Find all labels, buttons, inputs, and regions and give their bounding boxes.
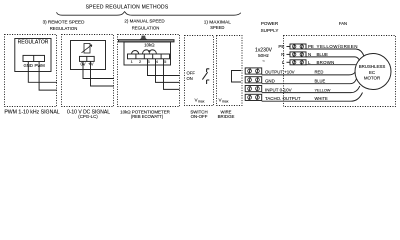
wire from terminal 4 xyxy=(156,59,180,83)
regulator terminal cells xyxy=(23,55,45,61)
label PE N L xyxy=(278,44,285,65)
pot body rect xyxy=(124,42,171,65)
svg-text:BRUSHLESS: BRUSHLESS xyxy=(359,64,386,69)
header: 3) REMOTE SPEED REGULATION xyxy=(43,19,86,31)
switch S1 xyxy=(202,69,209,84)
svg-text:MOTOR: MOTOR xyxy=(364,76,380,81)
wire GND out of regulator xyxy=(28,62,57,83)
caption WIRE BRIDGE xyxy=(218,109,235,119)
svg-text:BLUE: BLUE xyxy=(317,52,329,57)
wire +10V red xyxy=(262,72,356,75)
FAN dashed enclosure xyxy=(284,36,396,107)
dashed box D (switch) xyxy=(185,36,214,106)
knob on panel xyxy=(139,36,147,40)
wire 0V out xyxy=(83,61,114,78)
header: 2) MANUAL SPEED REGULATION xyxy=(124,19,165,31)
svg-text:PE: PE xyxy=(308,44,314,49)
dashed box B (0-10V DC) xyxy=(62,35,114,107)
label Vmax (switch) xyxy=(195,98,205,104)
wire from terminal 5 xyxy=(164,59,180,90)
svg-text:BLUE: BLUE xyxy=(315,78,326,83)
svg-text:RED: RED xyxy=(315,70,324,75)
svg-text:WHITE: WHITE xyxy=(315,96,328,101)
svg-text:(REB ECOWATT): (REB ECOWATT) xyxy=(131,114,164,119)
svg-text:GND: GND xyxy=(265,78,275,83)
terminal row 1-5 xyxy=(128,54,170,59)
svg-text:10kΩ: 10kΩ xyxy=(144,42,155,47)
caption SWITCH ON-OFF xyxy=(190,109,207,119)
motor M1 circle xyxy=(355,54,391,90)
wire bridge jumper xyxy=(232,71,242,83)
svg-text:ON-OFF: ON-OFF xyxy=(191,114,208,119)
brace under title xyxy=(57,12,241,16)
terminal numbers 1 2 3 4 5 xyxy=(131,59,168,64)
svg-text:(CPG-LC): (CPG-LC) xyxy=(78,114,98,119)
svg-text:SUPPLY: SUPPLY xyxy=(261,28,279,33)
svg-text:2) MANUAL SPEED: 2) MANUAL SPEED xyxy=(124,19,165,24)
terminal block PE xyxy=(287,44,307,49)
dashed box C (manual potentiometer) xyxy=(118,35,180,107)
terminal block TACHO xyxy=(245,94,262,100)
svg-text:BROWN: BROWN xyxy=(317,60,335,65)
panel bar xyxy=(119,40,175,42)
svg-text:OUTPUT +10V: OUTPUT +10V xyxy=(265,70,295,75)
svg-text:~: ~ xyxy=(262,59,265,64)
label POWER SUPPLY xyxy=(261,21,279,33)
svg-text:PWM: PWM xyxy=(34,63,45,68)
potentiometer symbol RP1 xyxy=(84,44,90,54)
wire TACHO white xyxy=(262,93,363,102)
svg-text:REGULATOR: REGULATOR xyxy=(18,40,49,46)
wiper arrow of RP1 xyxy=(82,45,92,53)
label GND PWM xyxy=(24,63,46,68)
terminal block +10V xyxy=(245,68,262,74)
wire PE yellow/green xyxy=(306,49,364,56)
wire +V out xyxy=(91,61,115,86)
svg-text:max: max xyxy=(198,99,205,103)
caption 0-10V signal xyxy=(67,109,110,119)
svg-text:TACHO. OUTPUT: TACHO. OUTPUT xyxy=(265,96,301,101)
svg-text:EC: EC xyxy=(369,70,375,75)
wire N blue xyxy=(306,57,360,61)
label 0V +V xyxy=(80,62,93,67)
potentiometer unit box xyxy=(71,41,106,70)
svg-text:ON: ON xyxy=(187,76,193,81)
svg-text:REGULATION: REGULATION xyxy=(132,26,160,31)
svg-text:+V: +V xyxy=(88,62,93,67)
wire from terminal 3 xyxy=(148,59,180,76)
svg-text:YELLOW: YELLOW xyxy=(315,87,331,92)
wire GND blue xyxy=(262,79,357,84)
wire PWM out of regulator xyxy=(39,62,57,91)
pot element arcs terminals 3-5 xyxy=(143,50,157,54)
dashed box E (wire bridge) xyxy=(217,36,243,106)
svg-text:FAN: FAN xyxy=(339,21,347,26)
terminal block GND xyxy=(245,77,262,83)
jumper arc terminals 1-2 xyxy=(132,50,139,54)
caption potentiometer xyxy=(120,109,171,119)
terminal block INPUT xyxy=(245,86,262,92)
label Vmax (bridge) xyxy=(219,98,229,104)
svg-text:SPEED REGULATION METHODS: SPEED REGULATION METHODS xyxy=(86,4,169,10)
wire INPUT yellow xyxy=(262,86,360,93)
svg-text:N: N xyxy=(308,52,311,57)
label 1x230V 50Hz ~ xyxy=(255,48,273,64)
label OFF / ON xyxy=(187,71,196,81)
svg-text:INPUT 0-10V: INPUT 0-10V xyxy=(265,87,292,92)
svg-text:3) REMOTE SPEED: 3) REMOTE SPEED xyxy=(43,19,86,24)
svg-text:N: N xyxy=(281,52,284,57)
svg-text:SPEED: SPEED xyxy=(210,25,224,30)
wire L brown xyxy=(306,64,356,66)
svg-text:L: L xyxy=(282,60,285,65)
regulator box U1 xyxy=(15,39,51,72)
terminal block L xyxy=(287,60,307,65)
svg-text:PWM 1-10 kHz SIGNAL: PWM 1-10 kHz SIGNAL xyxy=(4,109,59,115)
terminal block N xyxy=(287,52,307,57)
svg-text:YELLOW/GREEN: YELLOW/GREEN xyxy=(317,44,358,49)
dashed box A (PWM regulator) xyxy=(5,35,57,107)
svg-text:POWER: POWER xyxy=(261,21,279,26)
header: 1) MAXIMAL SPEED xyxy=(204,20,232,30)
wiper arrow into terminal 4 xyxy=(148,51,150,54)
svg-text:BRIDGE: BRIDGE xyxy=(218,114,235,119)
label BRUSHLESS EC MOTOR xyxy=(359,64,386,80)
svg-text:PE: PE xyxy=(278,44,284,49)
terminal cells of B xyxy=(80,56,95,61)
svg-text:50Hz: 50Hz xyxy=(258,53,269,58)
svg-text:OFF: OFF xyxy=(187,71,196,76)
svg-text:max: max xyxy=(222,99,229,103)
svg-text:REGULATION: REGULATION xyxy=(50,26,78,31)
